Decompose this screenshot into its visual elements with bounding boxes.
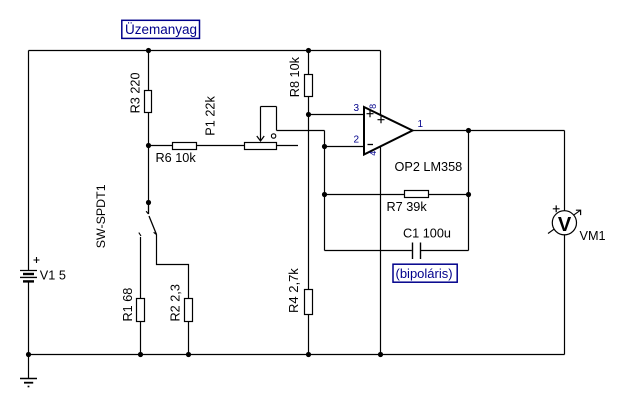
switch SW-SPDT1 [139, 200, 157, 236]
wire C1 right horizontal [421, 250, 469, 252]
wire voltmeter top [564, 131, 566, 211]
voltmeter VM1 [548, 210, 581, 236]
svg-text:(bipoláris): (bipoláris) [396, 266, 453, 281]
wire R8 node down to R4 [308, 115, 310, 290]
node R8 / R4 / pin3 junction [306, 112, 311, 117]
label (bipoláris) box [393, 264, 457, 282]
svg-text:R8 10k: R8 10k [288, 56, 302, 97]
wire C1 right rise [468, 195, 470, 251]
wire left rail upper [28, 51, 30, 271]
op-amp U1 OP2 LM358 [364, 107, 413, 155]
wire R8 bottom to pin3 node [308, 97, 310, 115]
node R3 / R6 / switch junction [146, 143, 151, 148]
switch wire from R6 junction down [148, 146, 150, 203]
node R1 / bottom rail [138, 352, 143, 357]
wire pin4 down to bottom rail [380, 146, 382, 355]
wire pin3 [309, 114, 365, 116]
svg-text:VM1: VM1 [580, 229, 606, 243]
resistor R3 [145, 91, 152, 113]
svg-text:8: 8 [368, 104, 378, 109]
node top rail / R3 junction [146, 48, 151, 53]
wire P1 right stub [277, 145, 299, 147]
node feedback right junction [466, 192, 471, 197]
node left rail / bottom rail junction [26, 352, 31, 357]
battery V1 [20, 271, 37, 282]
svg-text:R6 10k: R6 10k [156, 151, 197, 165]
wire C1 left horizontal [325, 250, 412, 252]
svg-text:R3 220: R3 220 [129, 72, 143, 113]
voltmeter plus marker [553, 205, 560, 212]
wire pin2 [325, 146, 365, 148]
resistor R8 [305, 75, 313, 97]
resistor R6 [173, 143, 197, 150]
wire R1 bottom [140, 322, 142, 355]
svg-text:1: 1 [418, 119, 424, 130]
node feedback left junction [322, 192, 327, 197]
resistor R7 [405, 191, 429, 198]
wire left rail lower [28, 281, 30, 354]
potentiometer P1 [245, 143, 277, 150]
svg-text:R4 2,7k: R4 2,7k [286, 268, 301, 313]
wire R7 left [325, 194, 405, 196]
wire output [413, 130, 565, 132]
wire R1 top [140, 237, 142, 299]
battery plus marker [34, 257, 40, 263]
wire output down to feedback [468, 131, 470, 195]
wire wiper to pin2 horizontal [277, 130, 325, 132]
svg-text:R2 2,3: R2 2,3 [169, 284, 183, 321]
wire pin2 node down to feedback [324, 147, 326, 195]
svg-text:2: 2 [354, 135, 360, 146]
op-amp plus input marker [367, 110, 374, 117]
svg-text:SW-SPDT1: SW-SPDT1 [94, 184, 108, 248]
wire R3 top [148, 51, 150, 91]
wire R3 bottom [148, 113, 150, 146]
ground [20, 355, 37, 387]
svg-text:3: 3 [354, 103, 360, 114]
svg-text:C1 100u: C1 100u [403, 227, 451, 241]
op-amp minus input marker [368, 144, 374, 146]
wire wiper top [261, 106, 277, 108]
wire R2 bottom [188, 322, 190, 355]
svg-text:OP2 LM358: OP2 LM358 [395, 160, 463, 174]
wire R6 to P1 [197, 145, 245, 147]
svg-text:V1 5: V1 5 [40, 269, 66, 283]
wire R7 right [429, 194, 469, 196]
resistor R2 [185, 299, 193, 322]
op-amp power plus marker [378, 116, 385, 123]
wire C1 left drop [324, 195, 326, 251]
node output junction [466, 128, 471, 133]
node pin4 / bottom rail [378, 352, 383, 357]
wire R4 bottom [308, 315, 310, 355]
wire R6 left [149, 145, 173, 147]
resistor R4 [305, 290, 313, 315]
svg-text:P1 22k: P1 22k [204, 96, 218, 136]
wire wiper drop to pin2 [324, 131, 326, 147]
node R4 / bottom rail [306, 352, 311, 357]
wire bottom rail [29, 354, 565, 356]
capacitor C1 [413, 243, 421, 260]
node top rail / R8 junction [306, 48, 311, 53]
node R2 / bottom rail [186, 352, 191, 357]
wire R8 top [308, 51, 310, 75]
wire wiper right vertical [276, 107, 278, 131]
P1 wiper arrow [257, 107, 264, 142]
svg-text:V: V [558, 214, 572, 236]
svg-text:4: 4 [368, 151, 378, 156]
resistor R1 [137, 299, 145, 322]
svg-text:R7 39k: R7 39k [387, 200, 428, 214]
P1 wiper terminal circle [271, 134, 275, 138]
wire switch throw to R2 [157, 235, 189, 299]
wire voltmeter bottom [564, 234, 566, 354]
wire pin8 power from top rail [380, 51, 382, 116]
label Üzemanyag box [122, 20, 200, 38]
node pin2 junction [322, 144, 327, 149]
wire top rail [29, 50, 381, 52]
svg-text:R1 68: R1 68 [121, 288, 135, 322]
svg-text:Üzemanyag: Üzemanyag [125, 22, 197, 37]
